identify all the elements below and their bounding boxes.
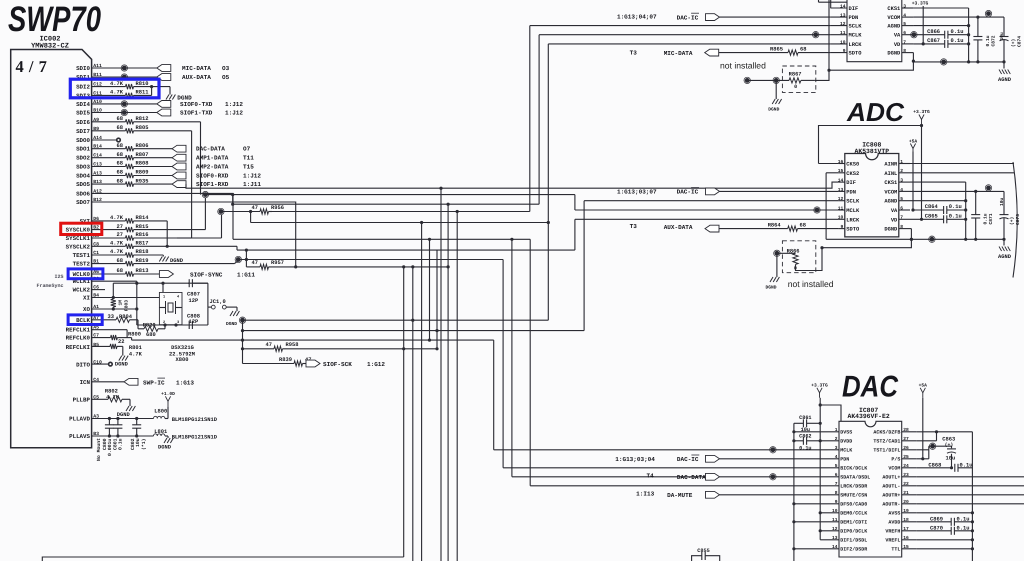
svg-text:AGND: AGND [884, 199, 898, 205]
svg-text:SDTO: SDTO [846, 227, 860, 233]
svg-text:16: 16 [838, 159, 844, 165]
wire mid rail AGND drop [1003, 239, 1005, 245]
wire CKS0 row [819, 163, 839, 165]
wire DAC right bus [971, 432, 974, 561]
svg-text:1:I13: 1:I13 [636, 490, 654, 497]
svg-text:P/S: P/S [891, 457, 900, 463]
svg-text:R935: R935 [136, 178, 149, 184]
wire +3.3TG mid drop [920, 125, 923, 221]
svg-text:13: 13 [838, 187, 844, 193]
svg-text:SDO2: SDO2 [76, 155, 90, 162]
svg-text:L800: L800 [154, 409, 167, 415]
svg-text:C862: C862 [799, 434, 811, 440]
via on mid MCLK row [814, 207, 820, 213]
svg-text:TTL: TTL [891, 547, 900, 553]
svg-text:22: 22 [118, 339, 124, 345]
svg-text:14: 14 [832, 544, 838, 550]
wire vertical bus x437 [435, 250, 438, 350]
ground DGND for SDI2/SDI3 [166, 95, 192, 102]
wire tee V1 to SCLK row [231, 195, 234, 206]
wire PS riser [928, 446, 930, 459]
flag DA-MUTE input [636, 490, 827, 499]
wire CKS2 row [826, 173, 839, 240]
svg-text:DGND: DGND [884, 227, 898, 233]
power +5A dac [919, 382, 928, 398]
wire DIP0 row [820, 530, 827, 532]
svg-text:1M: 1M [118, 300, 124, 306]
svg-text:SDO4: SDO4 [76, 173, 90, 180]
wire R867 DGND drop [775, 80, 777, 99]
svg-text:27: 27 [117, 232, 123, 238]
wire top ADC LRCK corner [547, 44, 831, 320]
via C863 [929, 443, 935, 449]
svg-text:TEST1: TEST1 [73, 252, 91, 259]
svg-text:+3.3TG: +3.3TG [913, 109, 930, 115]
svg-text:C874: C874 [1017, 36, 1023, 47]
wire +5A mid drop [911, 152, 914, 212]
IC top ADC right pins [887, 3, 913, 56]
wire DGND pin stub [910, 228, 911, 230]
svg-text:SIOF0-RXD: SIOF0-RXD [196, 173, 229, 180]
svg-text:AOUTL-: AOUTL- [882, 484, 900, 490]
svg-text:AMP2-DATA: AMP2-DATA [196, 164, 229, 171]
svg-text:X800: X800 [176, 357, 189, 363]
svg-text:+1.0D: +1.0D [161, 391, 175, 397]
wire VCOM row mid [910, 190, 1004, 193]
svg-text:23: 23 [903, 472, 909, 478]
svg-text:+5A: +5A [909, 139, 918, 145]
IC808 right pins [884, 159, 910, 233]
capacitor C802 10u [132, 417, 141, 438]
svg-text:T3: T3 [630, 223, 638, 230]
svg-text:ACKS/DZFB: ACKS/DZFB [873, 430, 900, 436]
svg-text:68: 68 [117, 152, 123, 158]
resistor R808 68 [92, 161, 172, 169]
svg-text:DGND: DGND [117, 412, 131, 418]
wire jog to mid MCLK [575, 195, 839, 210]
svg-text:12: 12 [838, 196, 844, 202]
capacitor C867 0.1u [913, 38, 968, 48]
wire WCLK2 stub [92, 289, 105, 291]
capacitor C871 0.1u [971, 191, 994, 239]
svg-text:I2S: I2S [54, 274, 63, 280]
svg-text:10u: 10u [135, 438, 141, 447]
via VA top [911, 32, 917, 38]
via on SDI4 [121, 101, 127, 107]
wire top bus [913, 8, 970, 62]
svg-text:C807: C807 [187, 292, 200, 298]
resistor R819 68 [92, 258, 239, 266]
svg-text:1:G13;03;07: 1:G13;03;07 [617, 189, 657, 196]
wire SDI5 [92, 112, 157, 114]
svg-text:SDI2: SDI2 [76, 84, 90, 91]
svg-text:SDATA/DSDL: SDATA/DSDL [840, 475, 870, 481]
via on top rail [941, 59, 947, 65]
svg-text:2: 2 [835, 436, 838, 442]
resistor R865 68 [719, 47, 831, 56]
wire ACKS row [917, 431, 973, 433]
svg-text:R802: R802 [105, 388, 118, 394]
svg-text:SIOF1-TXD: SIOF1-TXD [180, 110, 213, 117]
svg-text:C867: C867 [927, 38, 940, 44]
svg-text:0.1u: 0.1u [118, 438, 124, 450]
capacitor C807 12P [187, 279, 208, 304]
svg-text:SIOF-SCK: SIOF-SCK [323, 361, 352, 368]
resistor R814 4.7K [92, 215, 168, 246]
svg-text:not installed: not installed [720, 61, 766, 71]
label I2S FrameSync [36, 274, 63, 289]
svg-text:SIOF0-TXD: SIOF0-TXD [180, 101, 213, 108]
ground DGND for TEST1 [159, 257, 183, 265]
svg-text:AGND: AGND [998, 254, 1012, 260]
svg-text:AGND: AGND [887, 24, 901, 30]
wire mid DGND rail [826, 229, 1006, 241]
svg-text:11: 11 [840, 30, 846, 36]
flag SIOF-SCK output [306, 360, 385, 368]
svg-text:1:G13;04;07: 1:G13;04;07 [617, 13, 657, 20]
svg-text:C871: C871 [988, 213, 994, 224]
inductor L801 BLM18PG121SN1D [154, 429, 218, 440]
svg-text:MCLK: MCLK [840, 448, 852, 454]
label C802 [130, 438, 147, 450]
svg-text:R866: R866 [787, 248, 800, 254]
svg-text:12: 12 [832, 526, 838, 532]
via node xtal-clock [239, 317, 245, 323]
svg-text:not installed: not installed [788, 279, 834, 289]
via V2 from R816 [218, 208, 224, 214]
svg-text:L801: L801 [154, 429, 167, 435]
svg-text:2: 2 [900, 168, 903, 174]
wire VREFL row [917, 539, 973, 541]
via VCOM top [985, 10, 991, 16]
power +5A mid [909, 139, 918, 154]
wire SDO0 stub [92, 139, 116, 141]
IC002 reference designator [31, 36, 69, 51]
svg-text:0.1u: 0.1u [949, 204, 962, 210]
wire xtal pin1 to rail [161, 282, 164, 293]
ground DGND for JC1 [226, 311, 239, 327]
capacitor C870 0.1u [917, 525, 973, 535]
svg-text:SDI5: SDI5 [76, 110, 90, 117]
svg-text:SWP70: SWP70 [8, 0, 101, 39]
label ADC big [846, 97, 905, 127]
svg-text:10u: 10u [999, 197, 1005, 206]
svg-text:O7: O7 [243, 146, 251, 153]
svg-text:DIF1/DSDL: DIF1/DSDL [840, 538, 867, 544]
svg-text:DIF: DIF [846, 180, 856, 186]
IC807 left pins [828, 427, 871, 553]
wire xtal right rail [208, 283, 211, 325]
svg-text:R867: R867 [789, 72, 802, 78]
flag DAC-DATA input [646, 472, 827, 481]
svg-text:0.1u: 0.1u [985, 35, 991, 46]
resistor R815 27 [92, 198, 206, 233]
svg-text:LRCK: LRCK [846, 217, 860, 223]
label DAC big [842, 371, 899, 404]
svg-text:O5: O5 [222, 74, 230, 81]
svg-text:0.1u: 0.1u [957, 525, 970, 531]
svg-text:LRCK/DSDR: LRCK/DSDR [840, 484, 867, 490]
via on SDI0 [121, 65, 127, 71]
svg-text:O3: O3 [222, 65, 230, 72]
svg-text:4.7K: 4.7K [129, 352, 143, 358]
svg-text:AINR: AINR [884, 162, 898, 168]
highlight blue box BCLK [68, 315, 102, 325]
wire R810/R811 junction to DGND [150, 85, 170, 95]
svg-text:0: 0 [794, 84, 797, 90]
svg-text:VA: VA [894, 33, 901, 39]
svg-text:4.7K: 4.7K [110, 249, 124, 255]
label No Mount C800 [96, 438, 113, 461]
svg-text:7: 7 [900, 215, 903, 221]
svg-text:1:G12: 1:G12 [367, 361, 385, 368]
svg-text:DITO: DITO [76, 361, 90, 368]
svg-text:26: 26 [903, 445, 909, 451]
svg-text:WCLK2: WCLK2 [73, 287, 91, 294]
wire AOUTL+ row [917, 476, 1024, 478]
svg-text:SDO3: SDO3 [76, 164, 90, 171]
wire rise to mid SCLK [584, 201, 839, 331]
svg-text:FrameSync: FrameSync [36, 283, 63, 289]
IC top ADC left pins [830, 3, 862, 56]
svg-text:0.1u: 0.1u [983, 213, 989, 224]
resistor R820 680 [138, 320, 167, 338]
svg-text:25: 25 [903, 454, 909, 460]
svg-text:DIP0/DCLK: DIP0/DCLK [840, 529, 867, 535]
connector bracket right [1013, 162, 1017, 278]
capacitor C874 10u [999, 17, 1023, 62]
dashed box R867 [782, 66, 815, 92]
svg-text:R815: R815 [136, 224, 149, 230]
ground DGND for REFCLKI [115, 356, 129, 368]
svg-text:PDN: PDN [840, 457, 849, 463]
svg-text:15: 15 [903, 544, 909, 550]
ground DGND for PLLAVS [158, 438, 173, 451]
wire SDO6 to row [92, 193, 233, 239]
svg-text:SDI7: SDI7 [76, 128, 90, 135]
svg-text:R812: R812 [136, 116, 149, 122]
svg-text:16: 16 [903, 535, 909, 541]
IC SWP70 title [8, 0, 101, 39]
via on mid rail [929, 236, 935, 242]
svg-text:SWP-IC: SWP-IC [143, 379, 165, 386]
resistor R805 68 [92, 125, 192, 133]
svg-text:R809: R809 [136, 170, 149, 176]
svg-text:T3: T3 [630, 50, 638, 57]
svg-text:SDO5: SDO5 [76, 181, 90, 188]
svg-text:C865: C865 [925, 214, 938, 220]
svg-text:BLM18PG121SN1D: BLM18PG121SN1D [172, 417, 218, 423]
svg-text:12: 12 [840, 21, 846, 27]
svg-text:14: 14 [840, 3, 846, 9]
via R819 out [235, 256, 241, 262]
wire vertical bus x457 [456, 212, 458, 561]
capacitor C865 0.1u [910, 214, 966, 224]
capacitor C866 0.1u [913, 29, 968, 39]
wire TST1 stub [917, 449, 929, 451]
svg-text:PDN: PDN [849, 15, 859, 21]
via R867 left [773, 77, 779, 83]
wire AOUTR+ row [917, 494, 1024, 496]
svg-text:11: 11 [832, 517, 838, 523]
svg-text:VA: VA [891, 208, 898, 214]
svg-text:68: 68 [117, 161, 123, 167]
sheet number 4/7 label [16, 57, 48, 76]
wire AVSS row [917, 512, 973, 514]
resistor R817 4.7K [92, 241, 437, 252]
no-connect blob DITO [108, 362, 113, 367]
svg-text:CKS1: CKS1 [884, 180, 897, 186]
wire bottom long rail [42, 557, 403, 561]
svg-text:9: 9 [835, 499, 838, 505]
wire DEM1 row [794, 521, 828, 523]
wire DAC left ground bus [792, 423, 795, 561]
flag SIOF0-RXD output [172, 172, 261, 179]
svg-text:DVSS: DVSS [840, 430, 852, 436]
crystal element [159, 301, 182, 314]
svg-text:R839: R839 [279, 357, 292, 363]
svg-text:C855: C855 [697, 548, 709, 554]
svg-text:47: 47 [252, 205, 258, 211]
svg-text:AK4396VF-E2: AK4396VF-E2 [848, 413, 890, 420]
svg-text:DEM1/CDTI: DEM1/CDTI [840, 520, 867, 526]
svg-text:T11: T11 [243, 155, 254, 162]
svg-text:SIOF1-RXD: SIOF1-RXD [196, 181, 229, 188]
svg-text:3: 3 [903, 3, 906, 9]
wire DAC power bus [819, 405, 822, 540]
flag SIOF1-RXD output [172, 181, 261, 188]
via DAC SDATA [770, 474, 776, 480]
svg-text:7: 7 [903, 39, 906, 45]
IC top ADC box [847, 0, 902, 62]
svg-text:R801: R801 [129, 345, 142, 351]
via VCOM mid [985, 185, 991, 191]
svg-text:R810: R810 [136, 81, 149, 87]
svg-text:DAC-IC: DAC-IC [677, 189, 699, 196]
svg-text:R813: R813 [136, 268, 149, 274]
IC807 DAC box [839, 421, 902, 557]
resistor R816 27 [92, 215, 222, 241]
svg-text:SDO1: SDO1 [76, 146, 90, 153]
svg-text:1:J12: 1:J12 [243, 173, 261, 180]
svg-text:REFCLK0: REFCLK0 [66, 335, 91, 342]
svg-text:DGND: DGND [887, 51, 901, 57]
wire SDI0 [92, 67, 157, 69]
wire vertical bus x421 [421, 223, 423, 561]
svg-text:PDN: PDN [846, 189, 856, 195]
svg-text:DAC-IC: DAC-IC [677, 14, 699, 21]
svg-text:21: 21 [903, 490, 909, 496]
svg-text:11: 11 [838, 205, 844, 211]
svg-text:12P: 12P [189, 319, 199, 325]
wire xtal bottom rail [137, 324, 208, 326]
resistor R810 4.7K [92, 81, 152, 89]
svg-text:DGND: DGND [768, 107, 779, 113]
svg-text:SDI0: SDI0 [76, 65, 90, 72]
highlight red box SYSCLK0 [61, 223, 102, 234]
svg-text:10: 10 [838, 215, 844, 221]
svg-text:68: 68 [117, 143, 123, 149]
svg-text:PLLBP: PLLBP [73, 396, 91, 403]
wire vertical riser x412 [411, 267, 414, 561]
svg-text:1: 1 [835, 427, 838, 433]
svg-text:10u: 10u [946, 456, 956, 462]
svg-text:DGND: DGND [115, 362, 129, 368]
svg-text:T4: T4 [646, 472, 654, 479]
svg-text:10: 10 [832, 508, 838, 514]
capacitor C869 0.1u [917, 516, 973, 526]
part label DSX321G 22.5792M X800 [169, 345, 195, 363]
wire row 222 from R956 tee [251, 212, 549, 225]
svg-text:R817: R817 [136, 241, 149, 247]
crystal X800 DSX321G box [159, 292, 182, 325]
flag SWP-IC input [124, 378, 194, 386]
wire VCOM row dac [917, 466, 953, 469]
svg-text:(*1): (*1) [141, 438, 147, 450]
svg-text:R800: R800 [128, 331, 141, 337]
wire SDO6 long row [233, 238, 530, 241]
wire ICN [92, 381, 124, 383]
via R867 far [744, 77, 750, 83]
svg-text:19: 19 [903, 508, 909, 514]
svg-text:VD: VD [891, 217, 898, 223]
svg-text:TST2/CAD1: TST2/CAD1 [873, 439, 900, 445]
svg-text:4.7K: 4.7K [110, 215, 124, 221]
capacitor C873 10u [999, 191, 1021, 239]
wire R812 drop [200, 122, 202, 195]
via V1 from R815 [202, 191, 208, 197]
svg-text:10: 10 [840, 39, 846, 45]
svg-text:R957: R957 [271, 260, 284, 266]
svg-text:0.001u: 0.001u [107, 439, 113, 456]
svg-text:TEST2: TEST2 [73, 261, 91, 268]
flag AUX-DATA input mid [630, 223, 719, 232]
svg-text:MIC-DATA: MIC-DATA [182, 65, 211, 72]
jumper JC1,0 [210, 299, 238, 311]
svg-text:BCLK: BCLK [76, 317, 90, 324]
wire DAC LRCK riser [530, 239, 827, 485]
svg-text:C864: C864 [925, 204, 939, 210]
svg-text:AUX-DATA: AUX-DATA [664, 224, 693, 231]
wire R957 row [269, 265, 450, 268]
svg-text:1: 1 [163, 295, 165, 300]
flag DAC-IC input top [617, 13, 830, 21]
svg-text:4.7K: 4.7K [110, 81, 124, 87]
svg-text:AOUTR+: AOUTR+ [882, 493, 900, 499]
wire xtal left rail [136, 283, 138, 325]
wire WCLK1 to xtal rail [92, 281, 139, 285]
resistor R803 1M [111, 299, 130, 311]
svg-text:0.1u: 0.1u [957, 516, 970, 522]
wire DVSS row [794, 431, 828, 433]
svg-text:18: 18 [903, 517, 909, 523]
wire REFCLK0 long row [132, 338, 494, 342]
svg-text:R808: R808 [136, 161, 149, 167]
svg-text:SDO7: SDO7 [76, 199, 90, 206]
wire AOUTL- row [917, 485, 1024, 487]
wire node row2 [243, 330, 585, 332]
wire TST2 hook [917, 430, 938, 441]
svg-text:BICK/DCLK: BICK/DCLK [840, 466, 867, 472]
resistor R811 4.7K [92, 90, 152, 98]
wire R956 row to top ADC [272, 210, 530, 213]
svg-text:R956: R956 [271, 205, 284, 211]
resistor R800 22 [92, 331, 141, 345]
svg-text:4.7K: 4.7K [110, 241, 124, 247]
svg-text:DFS0/CAD0: DFS0/CAD0 [840, 502, 867, 508]
svg-text:DGND: DGND [226, 321, 237, 327]
svg-text:CKS1: CKS1 [887, 6, 900, 12]
